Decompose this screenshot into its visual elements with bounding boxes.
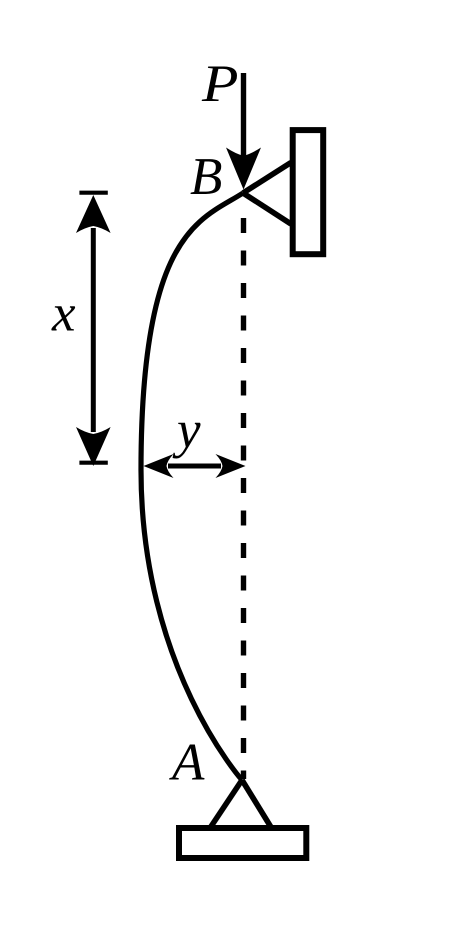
force arrow P shaft [241, 73, 246, 160]
dimension y arrowhead left [144, 454, 174, 478]
base rectangle (bottom support) [179, 828, 306, 858]
svg-text:y: y [172, 401, 201, 459]
dimension y arrowhead right [216, 454, 246, 478]
svg-text:P: P [201, 55, 239, 113]
top pin leg upper [243, 163, 291, 194]
dimension y arrow shaft [168, 464, 221, 469]
bottom pin leg right [242, 780, 272, 828]
svg-text:B: B [190, 148, 222, 206]
dimension x bottom tick [79, 461, 107, 465]
dashed chord line B to A [241, 218, 246, 779]
svg-text:x: x [51, 285, 76, 343]
wall bracket rectangle (top support) [293, 130, 324, 254]
dimension x arrowhead down [76, 427, 111, 466]
svg-text:A: A [169, 734, 205, 792]
dimension x arrow shaft [91, 228, 96, 432]
top pin leg lower [243, 193, 291, 224]
buckled column curve [141, 193, 243, 780]
force arrow P head [226, 148, 261, 190]
bottom pin leg left [210, 780, 242, 828]
dimension x top tick [79, 191, 107, 195]
dimension x arrowhead up [76, 195, 111, 233]
